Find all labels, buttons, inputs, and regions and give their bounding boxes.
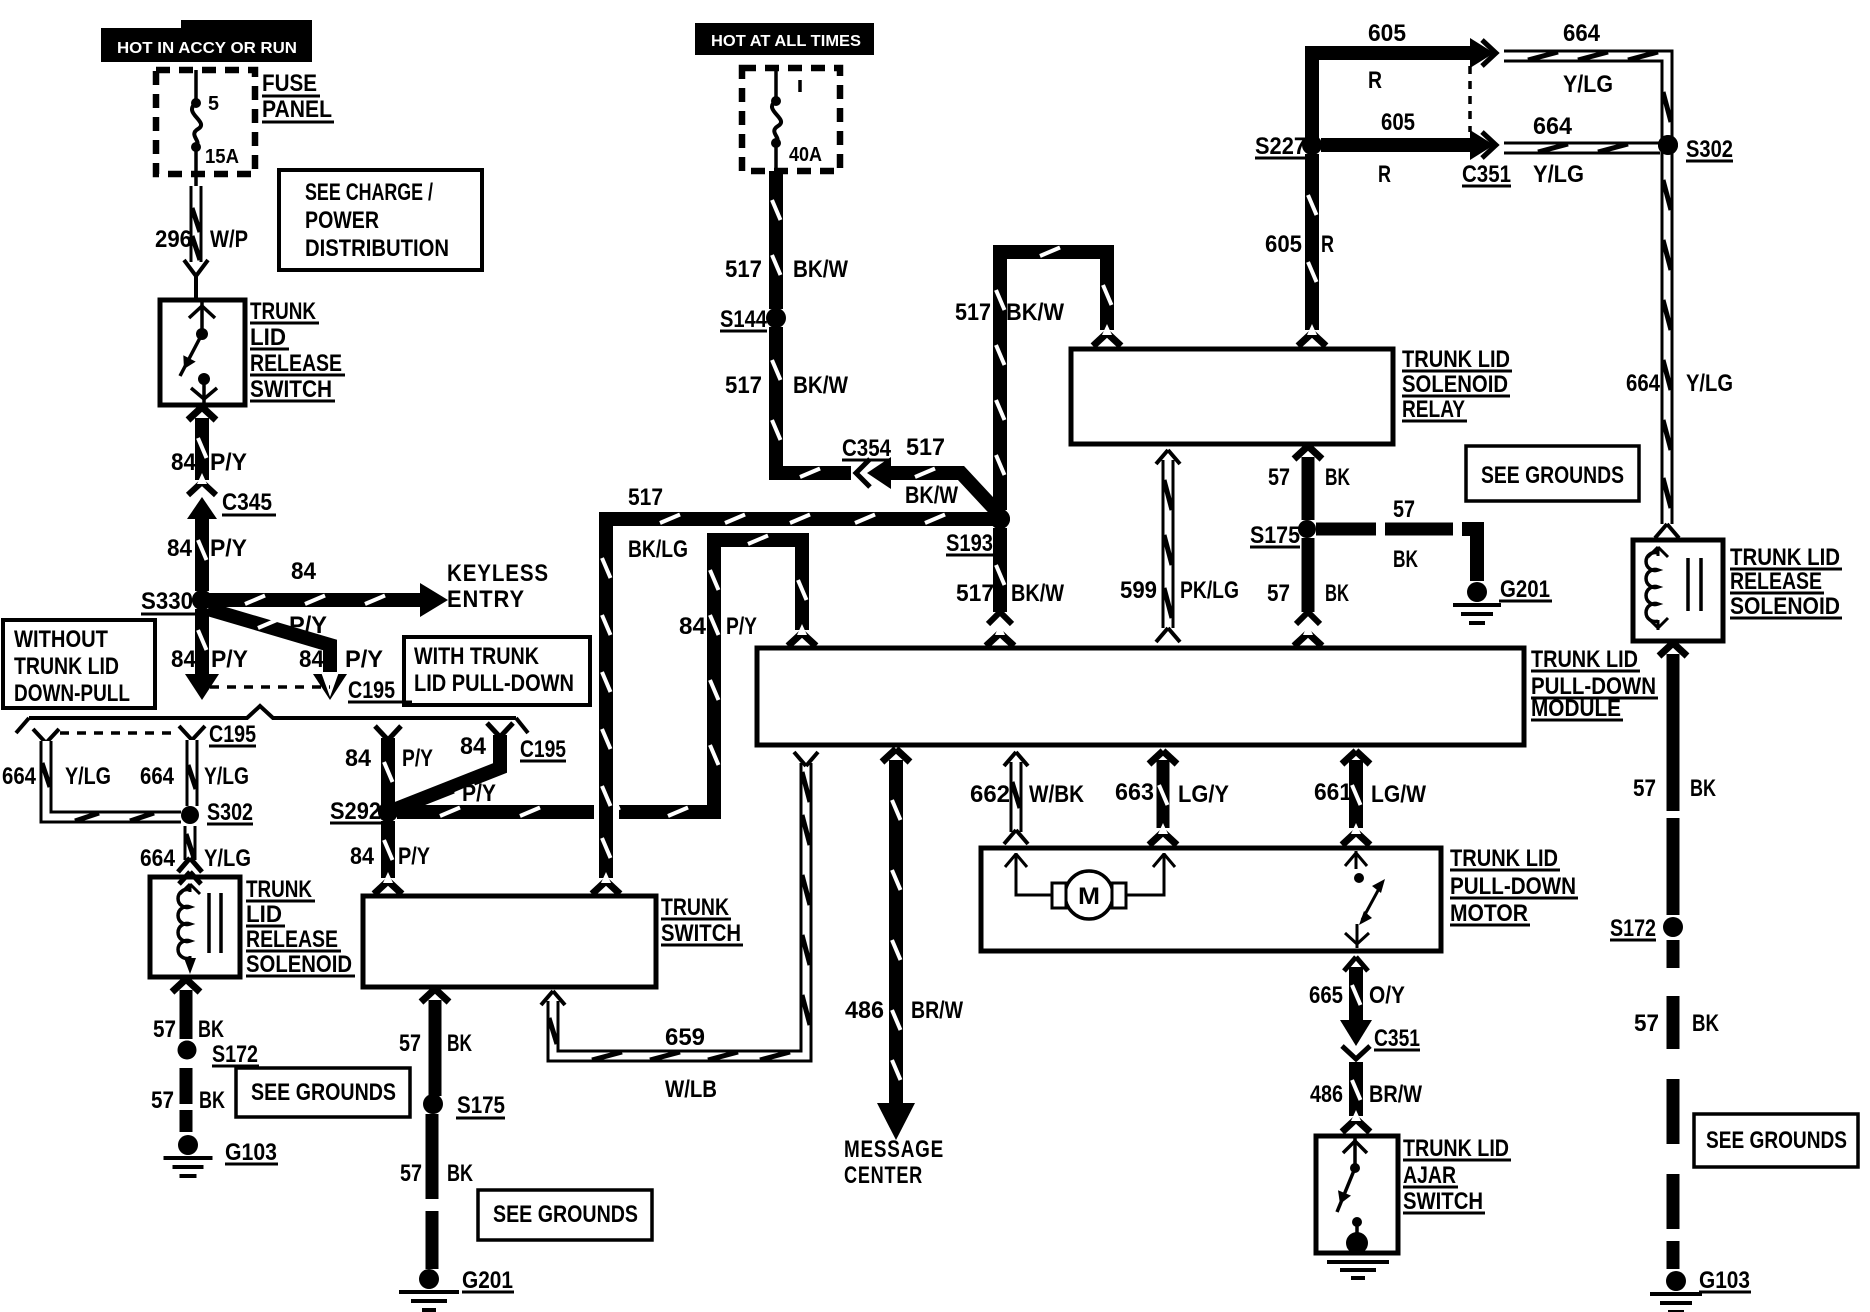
connector C354	[856, 457, 891, 489]
svg-text:SEE GROUNDS: SEE GROUNDS	[251, 1079, 396, 1106]
svg-text:POWER: POWER	[305, 207, 379, 234]
wire 605 R upper to C351	[1312, 38, 1494, 145]
wire label 661	[1314, 779, 1352, 806]
wire label 57 rr1	[1633, 775, 1656, 802]
svg-text:84: 84	[167, 535, 193, 562]
ground G201 left	[399, 1267, 514, 1310]
wire label BK/LG d	[628, 536, 688, 563]
wire 84 P/Y down from S330 (without pull-down)	[185, 609, 219, 700]
svg-text:663: 663	[1115, 779, 1154, 806]
wire 84 P/Y C195 to S292	[396, 735, 500, 809]
svg-text:C195: C195	[209, 721, 256, 748]
svg-text:TRUNK LID: TRUNK LID	[1730, 544, 1840, 571]
wire 84 P/Y S292 to trunk switch	[374, 821, 402, 894]
svg-text:G201: G201	[1500, 576, 1550, 603]
label TRUNK LID SOLENOID RELAY	[1402, 346, 1512, 423]
svg-text:RELEASE: RELEASE	[250, 350, 342, 377]
wire 57 BK S172 to G103 right (dashed)	[1667, 940, 1680, 1269]
svg-text:DISTRIBUTION: DISTRIBUTION	[305, 235, 449, 262]
trunk lid ajar switch contacts	[1337, 1138, 1367, 1243]
wire label BK t1	[447, 1030, 472, 1057]
splice S330	[141, 588, 212, 615]
svg-text:BK: BK	[199, 1087, 225, 1114]
svg-text:MOTOR: MOTOR	[1450, 900, 1528, 927]
svg-text:DOWN-PULL: DOWN-PULL	[14, 680, 130, 707]
wire label 665	[1309, 982, 1343, 1009]
wire label Y/LG left	[65, 763, 111, 790]
wire label BK s2	[199, 1087, 225, 1114]
wire label Y/LG right	[1686, 370, 1733, 397]
svg-text:S144: S144	[720, 306, 768, 333]
ajar switch ground	[1327, 1232, 1389, 1278]
svg-text:C351: C351	[1462, 161, 1511, 188]
wire label 517 b	[725, 372, 762, 399]
trunk lid release solenoid box (right)	[1633, 540, 1723, 641]
connector C351 dashed boundary	[1468, 66, 1472, 132]
fuse F5 15A	[191, 70, 201, 186]
trunk lid release solenoid box (left)	[150, 877, 240, 977]
wire label 664 low	[140, 845, 176, 872]
wire label BR/W	[911, 997, 963, 1024]
wire label 664 right	[1626, 370, 1661, 397]
trunk lid release switch box	[160, 300, 245, 405]
solenoid coil (left)	[178, 884, 200, 974]
wire label 84 keyless	[291, 558, 317, 585]
connector label C195 b	[209, 721, 256, 748]
wire 517 BK/LG S193 to trunk switch	[592, 515, 1000, 895]
label TRUNK LID PULL-DOWN MODULE	[1531, 646, 1658, 722]
svg-text:P/Y: P/Y	[462, 780, 496, 807]
wire label 84 f	[460, 733, 487, 760]
motor position switch	[1345, 851, 1385, 948]
wire label P/Y c	[211, 646, 248, 673]
svg-text:517: 517	[725, 372, 762, 399]
svg-text:664: 664	[1533, 113, 1573, 140]
wire label 517 d	[628, 484, 663, 511]
fuse value 15A	[205, 146, 239, 168]
wire label 664 up	[1563, 20, 1601, 47]
motor right terminal arrow	[1126, 853, 1175, 895]
wire label 486	[845, 997, 884, 1024]
box WITHOUT TRUNK LID DOWN-PULL	[3, 620, 155, 708]
box SEE GROUNDS (right upper)	[1466, 446, 1639, 501]
svg-text:G201: G201	[462, 1267, 513, 1294]
svg-text:Y/LG: Y/LG	[1686, 370, 1733, 397]
svg-text:C351: C351	[1374, 1025, 1420, 1052]
motor M symbol	[1052, 871, 1126, 919]
wire 665 O/Y motor to C351	[1340, 957, 1372, 1046]
trunk lid pull-down module box	[757, 648, 1524, 745]
svg-text:Y/LG: Y/LG	[1563, 71, 1613, 98]
splice S175 right	[1250, 520, 1316, 549]
svg-text:TRUNK LID: TRUNK LID	[1531, 646, 1638, 673]
wire 486 BR/W C351 to ajar switch	[1342, 1062, 1370, 1132]
svg-text:RELEASE: RELEASE	[246, 926, 338, 953]
svg-text:SWITCH: SWITCH	[661, 920, 741, 947]
svg-text:R: R	[1378, 161, 1391, 188]
wire label W/P	[210, 226, 248, 253]
svg-text:BR/W: BR/W	[1369, 1081, 1422, 1108]
wire label BK/W b	[793, 372, 848, 399]
wire 57 BK S175 to G201 (dashed)	[1316, 529, 1477, 581]
fuse value 5	[208, 93, 219, 115]
wire label BK rr2	[1692, 1010, 1720, 1037]
svg-text:Y/LG: Y/LG	[204, 845, 251, 872]
connector label C354	[842, 435, 892, 462]
svg-text:SEE GROUNDS: SEE GROUNDS	[1706, 1127, 1847, 1154]
svg-text:RELEASE: RELEASE	[1730, 568, 1822, 595]
wire label Y/LG mid2	[1533, 161, 1584, 188]
wire 517 BK/W S144 to C354	[772, 327, 851, 477]
fuse 40A	[771, 68, 800, 171]
svg-text:TRUNK LID: TRUNK LID	[14, 653, 119, 680]
wire 663 LG/Y module to motor	[1149, 751, 1177, 845]
svg-text:M: M	[1078, 883, 1100, 910]
svg-text:57: 57	[153, 1016, 176, 1043]
wire label W/BK	[1029, 781, 1085, 808]
wire label LG/W	[1371, 781, 1426, 808]
wire label P/Y keyless	[289, 612, 327, 639]
wire 57 BK S172 to G103 (left, dashed)	[180, 1068, 193, 1132]
wire label 662	[970, 781, 1010, 808]
svg-text:BK: BK	[198, 1016, 224, 1043]
solenoid core lines (left)	[209, 893, 221, 953]
svg-text:57: 57	[400, 1160, 422, 1187]
connector C195 dashed boundary a	[210, 685, 330, 689]
connector C351 bottom chevron	[1342, 1046, 1370, 1059]
wire 517 BK/W C354 to S193	[891, 469, 1002, 518]
svg-text:664: 664	[140, 845, 176, 872]
label TRUNK LID RELEASE SOLENOID (left)	[246, 876, 355, 978]
wire 296 W/P	[184, 186, 208, 300]
splice S227	[1255, 133, 1322, 160]
wire label 84 g	[679, 613, 707, 640]
wire 57 BK solenoid to S172 (right)	[1659, 643, 1687, 915]
svg-text:SOLENOID: SOLENOID	[246, 951, 352, 978]
wire 57 BK trunk switch to S175	[421, 989, 449, 1096]
wire label 84 d	[299, 646, 325, 673]
wire label 517 c	[906, 434, 945, 461]
wire label 84 c	[171, 646, 197, 673]
svg-text:SWITCH: SWITCH	[1403, 1188, 1483, 1215]
wire label 84 h	[350, 843, 375, 870]
svg-text:Y/LG: Y/LG	[1533, 161, 1584, 188]
svg-text:S302: S302	[1686, 136, 1733, 163]
wire label 57 rr2	[1634, 1010, 1659, 1037]
svg-text:P/Y: P/Y	[211, 646, 248, 673]
svg-text:BK: BK	[1690, 775, 1716, 802]
wire label R mid	[1378, 161, 1391, 188]
svg-text:PANEL: PANEL	[262, 96, 332, 123]
svg-text:BK: BK	[1325, 464, 1350, 491]
wire label 664 mid	[140, 763, 175, 790]
wire 664 Y/LG C351 to S302	[1504, 144, 1660, 152]
svg-text:S175: S175	[1250, 522, 1300, 549]
svg-text:BK/W: BK/W	[905, 482, 958, 509]
svg-text:HOT AT ALL TIMES: HOT AT ALL TIMES	[711, 33, 861, 50]
svg-text:BK/W: BK/W	[793, 256, 848, 283]
svg-text:BK: BK	[1393, 546, 1418, 573]
svg-text:84: 84	[679, 613, 707, 640]
svg-text:LG/W: LG/W	[1371, 781, 1426, 808]
svg-text:605: 605	[1381, 109, 1415, 136]
wire label BK r3	[1325, 580, 1349, 607]
svg-text:662: 662	[970, 781, 1010, 808]
svg-text:SWITCH: SWITCH	[250, 376, 332, 403]
svg-text:RELAY: RELAY	[1402, 396, 1465, 423]
svg-text:84: 84	[171, 449, 197, 476]
wire 662 W/BK module to motor	[1004, 752, 1028, 844]
svg-text:C354: C354	[842, 435, 892, 462]
svg-text:LID: LID	[250, 324, 286, 351]
svg-text:Y/LG: Y/LG	[204, 763, 249, 790]
wire label 599	[1120, 577, 1157, 604]
wire label Y/LG mid	[204, 763, 249, 790]
label TRUNK LID RELEASE SOLENOID (right)	[1730, 544, 1842, 620]
svg-text:517: 517	[955, 299, 991, 326]
svg-text:517: 517	[725, 256, 762, 283]
wire 605 R S227 to relay	[1298, 154, 1326, 346]
svg-text:WITH TRUNK: WITH TRUNK	[414, 643, 540, 670]
trunk lid pull-down motor box	[981, 848, 1441, 951]
splice S302 right	[1658, 135, 1733, 163]
wire label 517 f	[956, 580, 994, 607]
label TRUNK LID AJAR SWITCH	[1403, 1135, 1511, 1215]
svg-text:WITHOUT: WITHOUT	[14, 626, 108, 653]
svg-text:84: 84	[291, 558, 317, 585]
wire 664 Y/LG upper from C351 to corner	[1504, 52, 1671, 140]
svg-text:SOLENOID: SOLENOID	[1402, 371, 1508, 398]
wire 84 P/Y bracket to S292	[375, 726, 401, 806]
svg-text:TRUNK LID: TRUNK LID	[1403, 1135, 1509, 1162]
svg-text:AJAR: AJAR	[1403, 1162, 1456, 1189]
svg-text:57: 57	[1268, 464, 1290, 491]
connector chevron C351 upper	[1482, 40, 1496, 66]
svg-text:SOLENOID: SOLENOID	[1730, 593, 1840, 620]
svg-text:P/Y: P/Y	[210, 449, 247, 476]
svg-text:W/P: W/P	[210, 226, 248, 253]
svg-text:W/BK: W/BK	[1029, 781, 1085, 808]
wire label LG/Y	[1178, 781, 1229, 808]
wire label P/Y f	[462, 780, 496, 807]
wire 664 Y/LG left loop	[42, 741, 181, 821]
wire label O/Y	[1369, 982, 1405, 1009]
wire label BK r1	[1325, 464, 1350, 491]
wire 517 BK/W fuse to S144	[772, 171, 781, 309]
svg-text:57: 57	[1393, 496, 1415, 523]
wire label R up	[1368, 67, 1382, 94]
label MESSAGE CENTER	[844, 1136, 944, 1189]
connector label C351 bottom	[1374, 1025, 1420, 1052]
svg-text:S292: S292	[330, 798, 381, 825]
wire label P/Y a	[210, 449, 247, 476]
wire label 84 e	[345, 745, 372, 772]
svg-text:R: R	[1321, 231, 1334, 258]
svg-text:O/Y: O/Y	[1369, 982, 1405, 1009]
ground G201 right	[1453, 576, 1552, 623]
svg-text:664: 664	[1626, 370, 1661, 397]
connector label C195 a	[348, 677, 412, 704]
dashed link C195 left	[60, 731, 178, 735]
svg-text:PULL-DOWN: PULL-DOWN	[1450, 873, 1576, 900]
svg-text:R: R	[1368, 67, 1382, 94]
wire label P/Y e	[402, 745, 433, 772]
svg-text:S330: S330	[141, 588, 193, 615]
wire label 57 t2	[400, 1160, 422, 1187]
wire label BK/W c	[905, 482, 958, 509]
svg-text:TRUNK LID: TRUNK LID	[1450, 845, 1558, 872]
svg-text:57: 57	[1633, 775, 1656, 802]
svg-text:MESSAGE: MESSAGE	[844, 1136, 944, 1163]
wire label P/Y b	[210, 535, 247, 562]
svg-text:C195: C195	[348, 677, 395, 704]
wire label P/Y h	[398, 843, 430, 870]
trunk lid ajar switch box	[1316, 1136, 1398, 1253]
trunk lid solenoid relay box	[1071, 349, 1393, 444]
svg-text:CENTER: CENTER	[844, 1162, 923, 1189]
svg-text:S193: S193	[946, 530, 993, 557]
label TRUNK SWITCH	[661, 894, 743, 947]
wire 57 BK solenoid to S172 (left)	[172, 979, 200, 1039]
connector C195 left half	[33, 729, 59, 743]
splice S302 left	[181, 799, 253, 826]
connector C195 right branch	[487, 723, 513, 737]
wire 661 LG/W module to motor	[1342, 751, 1370, 845]
wire label PK/LG	[1180, 577, 1239, 604]
svg-text:SEE CHARGE /: SEE CHARGE /	[305, 179, 433, 206]
svg-text:599: 599	[1120, 577, 1157, 604]
wire label 57 r3	[1267, 580, 1290, 607]
wire label Y/LG up	[1563, 71, 1613, 98]
svg-text:BK: BK	[1692, 1010, 1720, 1037]
wire label P/Y g	[726, 613, 757, 640]
wire label P/Y d	[345, 646, 383, 673]
wire label 57 s2	[151, 1087, 174, 1114]
splice S172 left	[178, 1041, 260, 1069]
svg-text:BK/W: BK/W	[793, 372, 848, 399]
splice S292	[330, 798, 398, 825]
wire 84 P/Y (switch to C345)	[188, 407, 216, 495]
svg-text:S175: S175	[457, 1092, 505, 1119]
svg-text:MODULE: MODULE	[1531, 695, 1621, 722]
svg-text:15A: 15A	[205, 146, 239, 168]
trunk lid release switch contacts	[180, 302, 217, 403]
wire label BK/W e	[1006, 299, 1064, 326]
connector label C351 top	[1462, 161, 1511, 188]
svg-text:LID PULL-DOWN: LID PULL-DOWN	[414, 670, 574, 697]
connector C345	[187, 497, 217, 591]
svg-text:BK/LG: BK/LG	[628, 536, 688, 563]
splice S193	[946, 509, 1010, 557]
svg-text:BK: BK	[447, 1030, 472, 1057]
fuse panel box (dashed)	[156, 70, 255, 174]
svg-text:664: 664	[140, 763, 175, 790]
svg-text:BK/W: BK/W	[1011, 580, 1064, 607]
svg-text:659: 659	[665, 1024, 705, 1051]
svg-text:TRUNK: TRUNK	[250, 298, 317, 325]
wire label 605 mid	[1381, 109, 1415, 136]
svg-text:TRUNK LID: TRUNK LID	[1402, 346, 1510, 373]
wire label 664 left	[2, 763, 37, 790]
svg-text:57: 57	[1634, 1010, 1659, 1037]
svg-text:664: 664	[2, 763, 37, 790]
wire label 57 t1	[399, 1030, 421, 1057]
svg-text:P/Y: P/Y	[210, 535, 247, 562]
splice S175 left	[423, 1092, 505, 1119]
svg-text:G103: G103	[225, 1139, 277, 1166]
svg-text:TRUNK: TRUNK	[661, 894, 730, 921]
wire label 517 e	[955, 299, 991, 326]
svg-text:57: 57	[399, 1030, 421, 1057]
svg-text:5: 5	[208, 93, 219, 115]
svg-text:BK: BK	[1325, 580, 1349, 607]
svg-text:BK: BK	[447, 1160, 473, 1187]
connector C195 bracket	[16, 706, 528, 733]
splice S172 right	[1610, 915, 1683, 942]
wire 486 BR/W module to message center	[877, 749, 915, 1140]
svg-text:LG/Y: LG/Y	[1178, 781, 1229, 808]
label KEYLESS ENTRY	[447, 560, 549, 613]
wire 664 Y/LG from C195 to S302	[188, 740, 196, 806]
ground G103 left	[164, 1135, 279, 1176]
svg-text:C345: C345	[222, 489, 272, 516]
wire label 605 up	[1368, 20, 1406, 47]
box SEE GROUNDS (bottom right)	[1694, 1114, 1858, 1167]
wire 84 P/Y diagonal from S330 (with pull-down)	[192, 590, 347, 700]
wire label BK/W f	[1011, 580, 1064, 607]
svg-text:S302: S302	[207, 799, 253, 826]
trunk switch box	[363, 896, 656, 987]
wire label 84 a	[171, 449, 197, 476]
wire 517 BK/W S193 up to relay	[996, 248, 1121, 511]
wire label 517 a	[725, 256, 762, 283]
wire label BK rr1	[1690, 775, 1716, 802]
connector chevron C351 lower	[1482, 132, 1496, 158]
svg-text:486: 486	[845, 997, 884, 1024]
box WITH TRUNK LID PULL-DOWN	[404, 637, 590, 705]
svg-text:C195: C195	[520, 736, 566, 763]
svg-text:FUSE: FUSE	[262, 70, 317, 97]
fuse value 40A	[789, 144, 822, 166]
wire label 664 mid2	[1533, 113, 1573, 140]
wire label 659	[665, 1024, 705, 1051]
svg-text:664: 664	[1563, 20, 1601, 47]
wire label R low	[1321, 231, 1334, 258]
svg-text:661: 661	[1314, 779, 1352, 806]
svg-text:486: 486	[1310, 1081, 1343, 1108]
svg-text:ENTRY: ENTRY	[447, 586, 525, 613]
wire label BR/W b	[1369, 1081, 1422, 1108]
splice S144	[720, 306, 786, 333]
svg-text:517: 517	[628, 484, 663, 511]
wire label BK r2	[1393, 546, 1418, 573]
svg-text:84: 84	[299, 646, 325, 673]
label TRUNK LID PULL-DOWN MOTOR	[1450, 845, 1578, 927]
wire label 605 low	[1265, 231, 1302, 258]
wire label 57 s1	[153, 1016, 176, 1043]
wire 57 BK S175 to module	[1294, 538, 1322, 646]
wire 57 BK relay to S175	[1294, 446, 1322, 520]
box SEE GROUNDS (bottom middle)	[478, 1190, 652, 1240]
svg-text:PK/LG: PK/LG	[1180, 577, 1239, 604]
svg-text:517: 517	[906, 434, 945, 461]
wire label BK t2	[447, 1160, 473, 1187]
motor left terminal arrow	[1005, 853, 1052, 895]
connector C195 right half	[179, 726, 205, 740]
svg-text:P/Y: P/Y	[726, 613, 757, 640]
svg-text:BK/W: BK/W	[1006, 299, 1064, 326]
ground G103 right	[1650, 1267, 1751, 1312]
